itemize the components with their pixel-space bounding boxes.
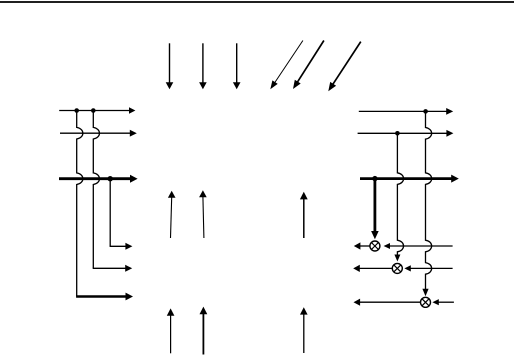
conflict row A right line xyxy=(389,245,453,247)
conflict row C left arrow xyxy=(359,301,420,303)
conflict row A left arrow xyxy=(359,245,370,247)
bottom up arrow 3 xyxy=(303,314,305,353)
top down arrow 2 xyxy=(202,43,204,83)
right lane arrow row 1 xyxy=(359,110,447,112)
left branch arrow row 5 xyxy=(93,267,127,269)
conflict row B right arrowhead xyxy=(404,265,410,271)
left lane arrow row 1 xyxy=(59,110,130,112)
junction dot left row3 xyxy=(108,176,113,181)
top down arrow 1 xyxy=(169,43,171,83)
otimes B xyxy=(392,263,402,273)
left branch arrow row 4 xyxy=(110,245,127,247)
diagonal down-left arrow 2 xyxy=(297,41,324,83)
left wire 3 xyxy=(109,179,111,247)
right wire 2 with hops xyxy=(397,133,403,255)
right wire 3 thick down arrow xyxy=(373,179,376,232)
left lane arrow row 2 xyxy=(60,132,131,134)
diagonal down-left arrow 3 xyxy=(333,42,361,85)
right lane arrow row 3 (thick) xyxy=(360,177,452,180)
junction dot right row1 xyxy=(423,109,428,114)
middle up arrow 3 xyxy=(303,198,305,238)
right wire 1 down arrowhead xyxy=(422,289,428,297)
conflict row A right arrowhead xyxy=(384,243,390,249)
diagonal down-left arrow 1 (thin) xyxy=(275,41,303,84)
right lane arrow row 2 xyxy=(358,132,448,134)
left wire 2 with hops xyxy=(93,111,99,269)
left branch arrow row 6 (thick) xyxy=(76,295,126,297)
junction dot left row1 a xyxy=(74,108,79,113)
right wire 2 down arrowhead xyxy=(394,255,400,262)
otimes A xyxy=(370,241,380,251)
junction dot right row3 xyxy=(372,176,377,181)
otimes C xyxy=(421,297,431,307)
conflict row B right line xyxy=(410,267,453,269)
bottom up arrow 1 xyxy=(170,315,172,354)
middle up arrow 2 xyxy=(203,196,204,238)
top down arrow 3 xyxy=(236,43,238,83)
conflict row B left arrow xyxy=(359,267,393,269)
top border line xyxy=(0,1,514,3)
right wire 1 with hops xyxy=(426,111,432,289)
middle up arrow 1 xyxy=(171,197,172,238)
conflict row C right arrowhead xyxy=(432,299,438,305)
left lane arrow row 3 (thick) xyxy=(59,177,131,180)
conflict row C right line xyxy=(438,301,454,303)
bottom up arrow 2 xyxy=(202,313,204,354)
junction dot right row2 xyxy=(395,131,400,136)
left wire 1 with hops xyxy=(77,111,83,297)
junction dot left row1 b xyxy=(91,108,96,113)
